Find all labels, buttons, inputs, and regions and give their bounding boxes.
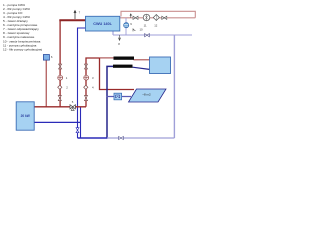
wire: supply top line to tank [59,19,85,21]
valve on bottom main [119,136,124,139]
pump 11 [143,14,150,27]
radiator box [150,57,171,74]
wire: radiator return [133,67,150,69]
wall bar lower [113,65,133,68]
safety valve 10 [133,28,143,32]
valve on tank bottom line [145,34,150,37]
filter 12 diamond [153,15,159,28]
wire: circulation line [120,17,196,19]
boiler [16,102,34,130]
svg-text:11: 11 [144,23,147,27]
wire: circulation loop top [121,11,195,17]
svg-text:10: 10 [140,28,144,32]
svg-text:~8 m2: ~8 m2 [142,93,151,97]
drain valve 8 [118,35,120,46]
RTL valve box [114,93,122,100]
pump 3 [84,75,94,80]
three-way valve 5 [70,100,75,110]
valve on circulation line left [133,16,138,19]
expansion vessel 6 [43,55,53,107]
valve pipe A bottom [58,96,61,101]
svg-text:20 kW: 20 kW [21,114,30,118]
circulation pump 9 (blue) [124,18,133,35]
valve on pipe B top [85,64,88,69]
wire: boiler supply riser pipe A [59,20,61,107]
wire: floor return [106,96,131,98]
wire: floor heating supply [100,58,135,90]
filter 2 diamond [58,85,68,89]
wall bar upper [114,57,135,60]
valve on circulation line right [162,16,167,19]
wire: bypass down [80,108,82,139]
wire: bottom main right [107,137,174,139]
floor heating parallelogram [129,89,167,102]
wire: boiler red out [34,106,86,108]
legend [3,3,42,51]
filter 4 diamond [84,85,94,89]
svg-text:12: 12 [154,23,158,27]
valve pipe B bottom [85,96,88,101]
fill valve on cold feed [76,128,79,133]
wire: boiler return [34,121,81,123]
wire: tank bottom line [113,31,192,35]
wire: pipe B riser [86,58,100,107]
tank CWU [86,16,120,31]
vent tick on circulation line [130,14,132,18]
wire: bottom main left [78,137,108,139]
valve on pipe A top [59,64,62,69]
wire: cold feed to tank [78,28,86,138]
svg-text:CWU 140L: CWU 140L [93,22,112,26]
wire: radiator supply [100,57,114,59]
pump 1 [58,75,68,80]
air vent 7 arrow [74,11,76,19]
svg-text:12 - filtr pompy cyrkulacyjnej: 12 - filtr pompy cyrkulacyjnej [3,47,42,51]
wire: right riser [173,35,175,138]
